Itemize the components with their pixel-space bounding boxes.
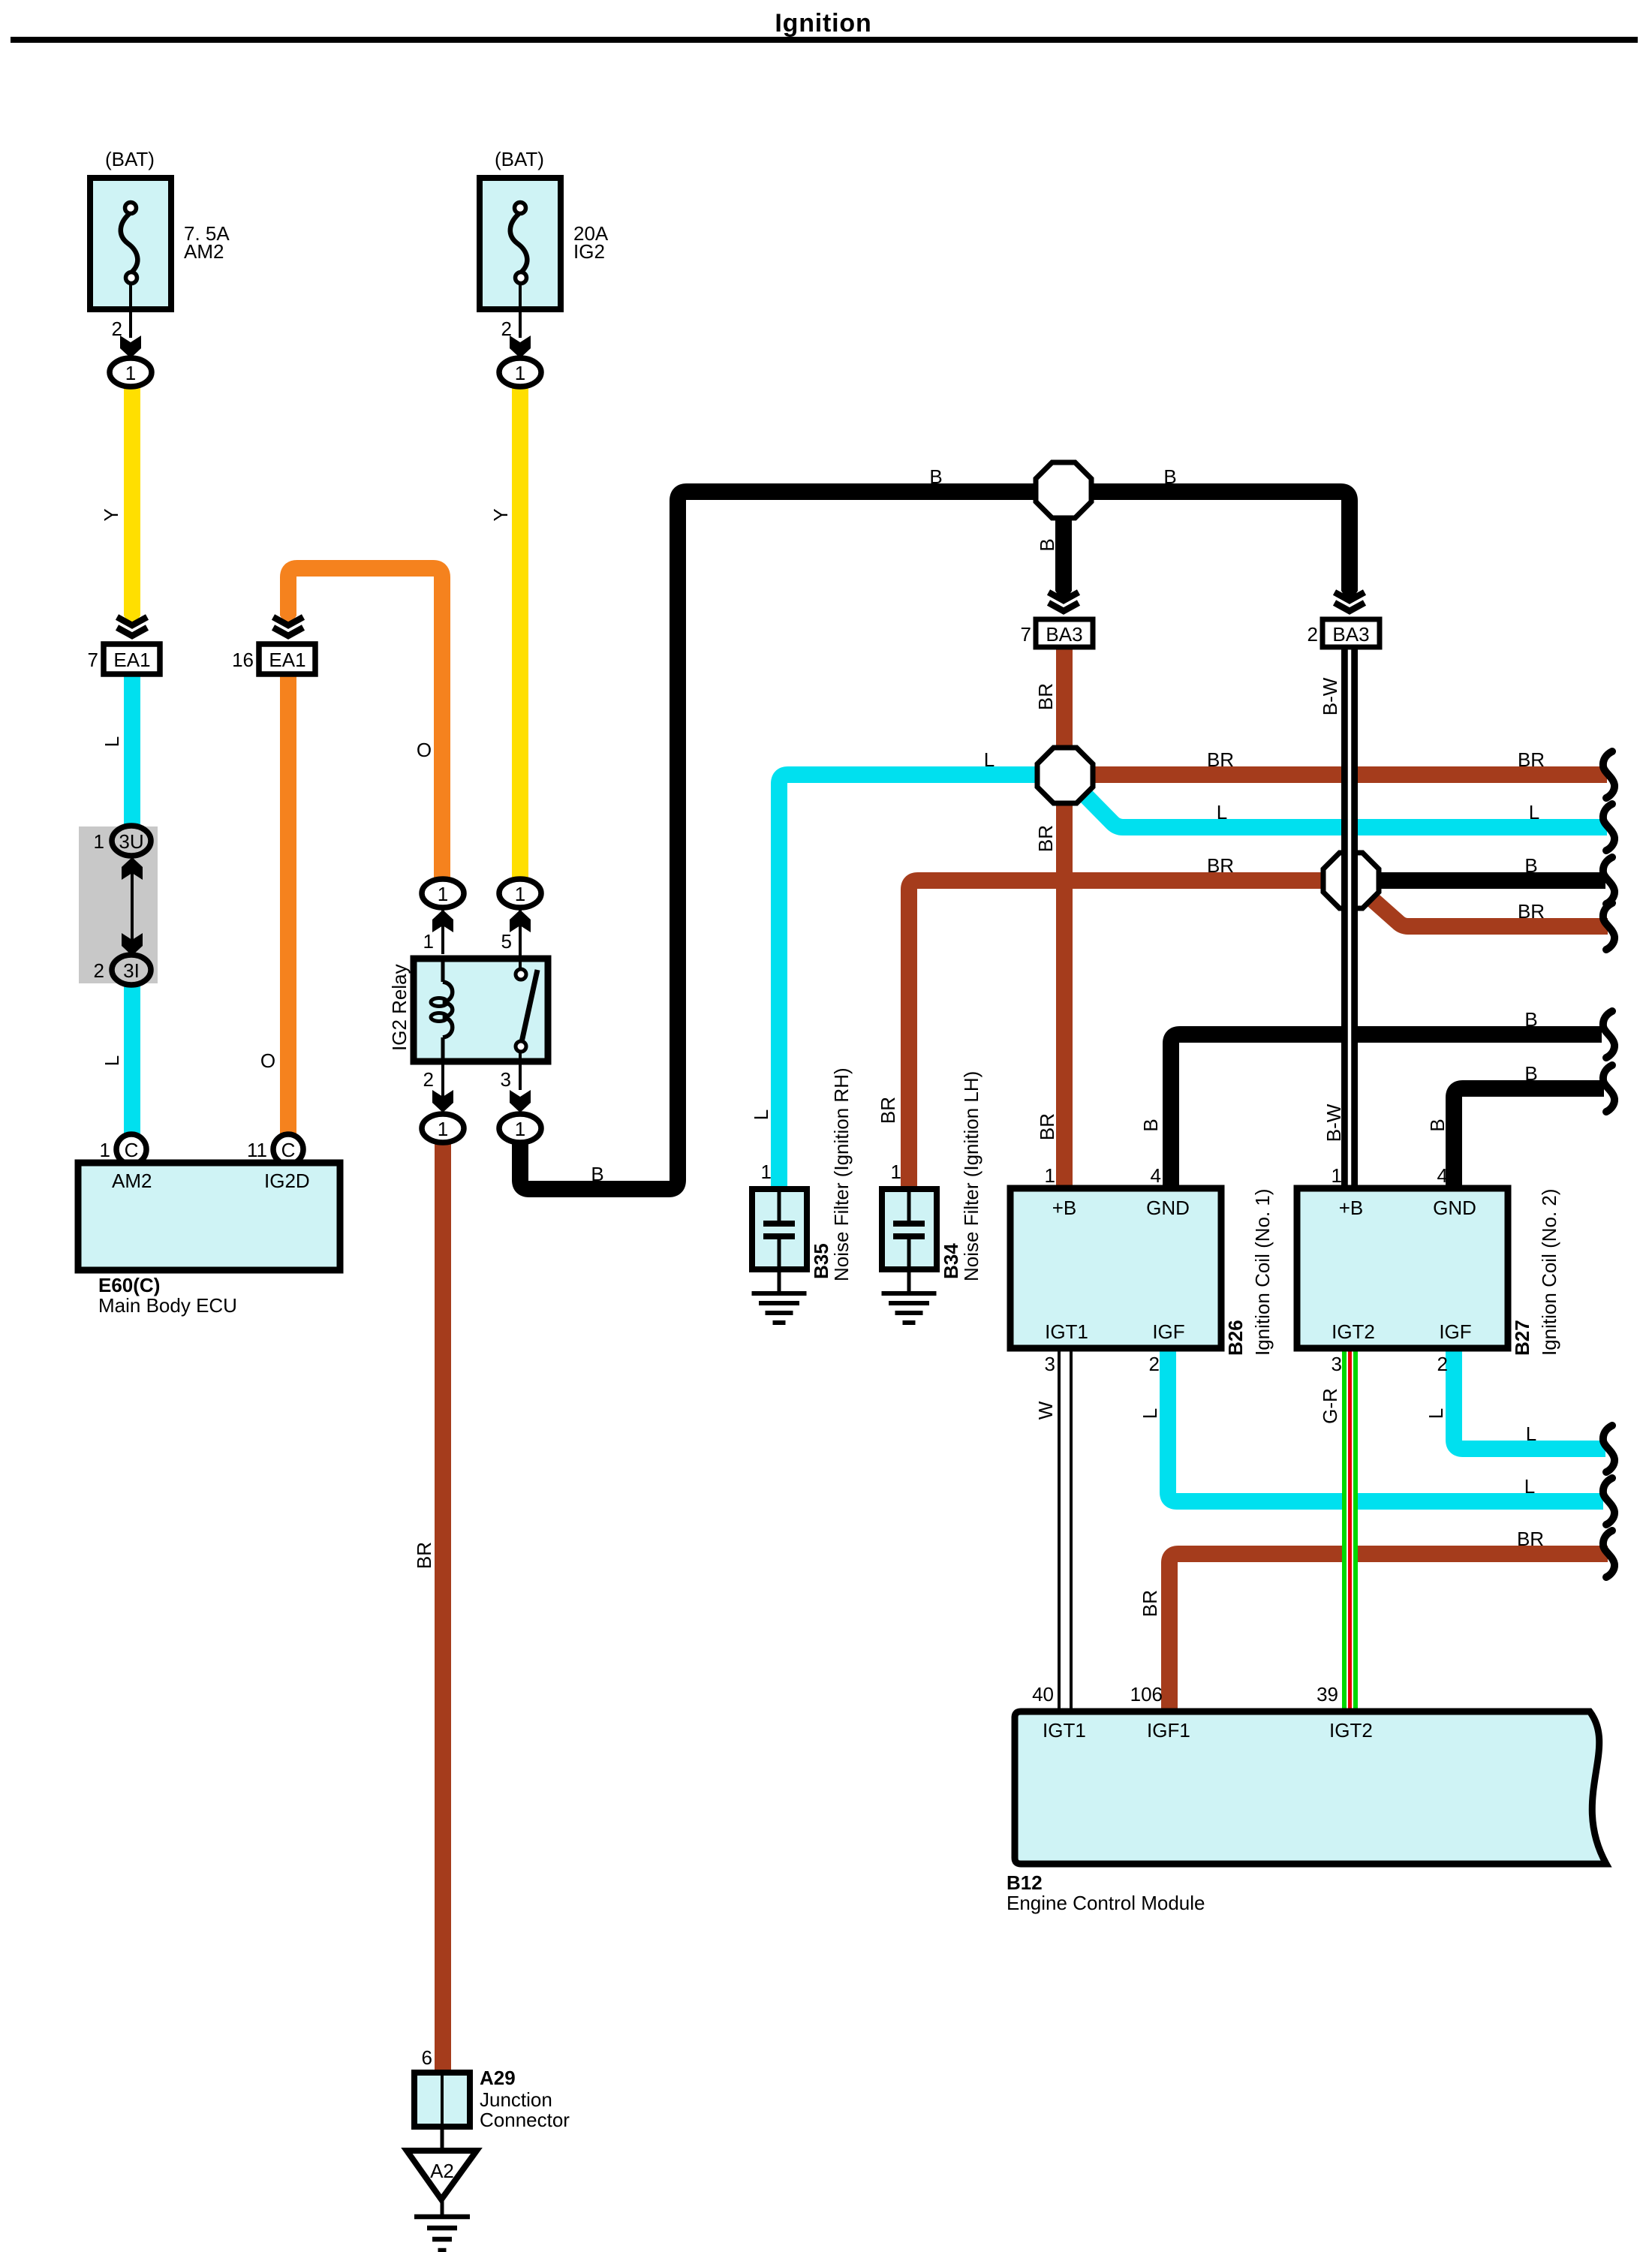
svg-text:2: 2: [1307, 623, 1318, 646]
splice point (octagon) BR/B row 1173: [1323, 853, 1379, 908]
wire L cyan: splice left then down to noise filter B35: [779, 775, 1065, 1190]
connector pin 1 below relay left: [422, 1114, 464, 1143]
ignition coil B26 (No. 1) box: [1010, 1188, 1221, 1348]
svg-text:EA1: EA1: [269, 649, 305, 671]
svg-text:BR: BR: [1518, 748, 1545, 771]
svg-text:IGF1: IGF1: [1147, 1719, 1190, 1742]
svg-text:1: 1: [438, 883, 448, 905]
torn-wire mark at right edge (B row from B26 GND): [1603, 1011, 1614, 1058]
svg-text:W: W: [1034, 1401, 1057, 1420]
svg-text:BR: BR: [1207, 748, 1234, 771]
svg-text:2: 2: [423, 1068, 434, 1091]
svg-text:11: 11: [247, 1139, 267, 1161]
svg-text:L: L: [984, 748, 995, 771]
svg-text:L: L: [1524, 1475, 1535, 1498]
connector EA1 pin 16: [259, 644, 315, 674]
svg-text:B-W: B-W: [1319, 677, 1341, 715]
wire BR brown: noise filter B34 up then right to splice: [909, 881, 1351, 1190]
svg-text:B: B: [1524, 854, 1537, 877]
svg-text:B-W: B-W: [1323, 1103, 1345, 1142]
arrow into connector below fuse AM2: [120, 336, 141, 358]
svg-text:B12: B12: [1007, 1871, 1043, 1894]
title rule: [11, 37, 1638, 43]
svg-text:B34: B34: [940, 1243, 962, 1279]
wire BR brown: splice right to torn edge: [1065, 766, 1607, 783]
svg-text:AM2: AM2: [184, 240, 224, 263]
arrow up into pin 1 oval: [432, 910, 453, 932]
wire O orange: EA1-16 down to E60 pin 11: [280, 674, 296, 1137]
wire W white: coil B26 IGT1 down to ECM pin 40 IGT1: [1058, 1348, 1073, 1715]
svg-text:IGT1: IGT1: [1043, 1719, 1086, 1742]
svg-text:L: L: [1526, 1423, 1536, 1445]
svg-text:Junction: Junction: [480, 2088, 552, 2111]
relay coil: [441, 959, 445, 982]
noise filter B34 (Ignition LH): [882, 1189, 937, 1269]
wire L cyan: coil B27 IGF down then right to torn edge (row 1930): [1454, 1348, 1605, 1449]
svg-text:2: 2: [94, 959, 104, 982]
wire B-W black-white: BA3-2 down through splice to ignition coil B27 +B: [1341, 647, 1358, 1190]
svg-text:3: 3: [1045, 1353, 1055, 1375]
relay switch: [519, 931, 522, 970]
svg-text:BA3: BA3: [1332, 623, 1369, 646]
svg-text:1: 1: [423, 930, 434, 953]
relay pin stub 5: [519, 908, 522, 954]
svg-text:B: B: [1036, 538, 1058, 551]
torn-wire mark at right edge (BR row to ECM IGF1): [1603, 1531, 1614, 1577]
svg-text:3: 3: [1332, 1353, 1342, 1375]
arrow up into pin 5 oval: [510, 910, 531, 932]
Engine Control Module B12 box with torn right edge: [1015, 1712, 1606, 1864]
lead from A29 to ground point A2: [441, 2127, 444, 2152]
svg-text:L: L: [1217, 801, 1227, 823]
svg-text:(BAT): (BAT): [105, 148, 155, 170]
junction connector block (gray): [79, 826, 158, 983]
splice point (octagon) on B line: [1036, 462, 1091, 518]
svg-text:16: 16: [232, 649, 254, 671]
wire BR brown: BA3-7 down through splice to ignition coil B26 +B: [1056, 647, 1073, 1190]
svg-text:GND: GND: [1433, 1197, 1476, 1219]
svg-text:L: L: [101, 736, 123, 747]
svg-text:L: L: [1425, 1408, 1447, 1419]
svg-text:B: B: [1524, 1062, 1537, 1085]
wire L cyan: splice diagonal down then right to torn edge: [1065, 775, 1607, 827]
svg-text:1: 1: [125, 362, 136, 384]
fuse IG2 20A (BAT): [480, 178, 561, 309]
svg-text:L: L: [1139, 1408, 1161, 1419]
wire B black: coil B26 GND up then right to torn edge: [1171, 1034, 1602, 1190]
svg-text:BR: BR: [1207, 854, 1234, 877]
wire B-W over splice: [1341, 847, 1358, 914]
svg-text:Connector: Connector: [480, 2109, 570, 2131]
svg-text:Noise Filter (Ignition LH): Noise Filter (Ignition LH): [960, 1071, 982, 1281]
torn-wire mark at right edge (L row from B27 IGF): [1603, 1426, 1614, 1472]
connector 3U pin 1: [112, 826, 151, 856]
svg-text:AM2: AM2: [112, 1170, 152, 1192]
svg-text:BA3: BA3: [1046, 623, 1082, 646]
connector BA3 pin 7: [1036, 619, 1093, 647]
svg-text:Y: Y: [100, 508, 122, 521]
svg-text:B: B: [929, 465, 942, 488]
connector pin 1 above relay: [422, 879, 464, 908]
svg-text:BR: BR: [1518, 900, 1545, 923]
svg-text:4: 4: [1151, 1164, 1161, 1187]
arrow up into 3U: [122, 857, 143, 880]
svg-text:B27: B27: [1511, 1320, 1533, 1356]
svg-text:IGT1: IGT1: [1045, 1320, 1088, 1343]
connector 3I pin 2: [112, 955, 151, 985]
svg-text:5: 5: [501, 930, 512, 953]
svg-text:7: 7: [88, 649, 98, 671]
svg-text:3: 3: [501, 1068, 511, 1091]
arrow into EA1-7: [124, 611, 140, 629]
relay pin stub 2: [441, 1064, 444, 1115]
svg-text:Ignition: Ignition: [775, 9, 871, 38]
torn-wire mark at right edge (B row from splice): [1603, 857, 1614, 904]
svg-text:+B: +B: [1339, 1197, 1364, 1219]
ground symbol: [414, 2214, 470, 2220]
wire B black: splice down to BA3-7: [1055, 492, 1072, 588]
wire B black: relay pin 3 down, right, up and across to BA3 connectors: [520, 492, 1350, 1189]
wire L cyan: coil B26 IGF down then right to torn edge (row 2000): [1168, 1348, 1603, 1501]
svg-text:O: O: [417, 739, 432, 761]
svg-text:1: 1: [94, 830, 104, 853]
svg-text:EA1: EA1: [113, 649, 150, 671]
wire BR brown: torn edge left then down to ECM pin 106 IGF1: [1169, 1554, 1608, 1715]
svg-text:39: 39: [1316, 1683, 1338, 1706]
svg-text:1: 1: [515, 362, 525, 384]
svg-text:3U: 3U: [119, 830, 143, 853]
svg-text:Y: Y: [489, 508, 512, 521]
svg-text:C: C: [281, 1139, 296, 1161]
connector pin 1 above relay right: [499, 879, 541, 908]
svg-text:1: 1: [438, 1118, 448, 1140]
svg-text:IGT2: IGT2: [1332, 1320, 1375, 1343]
svg-text:IG2: IG2: [573, 240, 605, 263]
svg-text:B: B: [1524, 1008, 1537, 1031]
svg-text:Ignition Coil (No. 2): Ignition Coil (No. 2): [1538, 1188, 1560, 1356]
svg-text:G-R: G-R: [1319, 1388, 1341, 1424]
svg-text:1: 1: [891, 1161, 901, 1183]
wire O orange: EA1-16 over to IG2 relay pin 1: [288, 568, 442, 883]
svg-text:L: L: [750, 1109, 772, 1120]
svg-text:Engine Control Module: Engine Control Module: [1007, 1892, 1205, 1914]
svg-text:Ignition Coil (No. 1): Ignition Coil (No. 1): [1251, 1188, 1274, 1356]
svg-text:BR: BR: [877, 1097, 899, 1124]
svg-text:IGT2: IGT2: [1329, 1719, 1373, 1742]
svg-text:1: 1: [1332, 1164, 1342, 1187]
torn-wire mark at right edge (L row from splice): [1603, 804, 1614, 851]
svg-text:IG2D: IG2D: [264, 1170, 310, 1192]
svg-text:B35: B35: [810, 1243, 832, 1279]
wire G-R green-red: coil B27 IGT2 down to ECM pin 39 IGT2: [1342, 1348, 1358, 1715]
svg-text:6: 6: [422, 2046, 432, 2069]
svg-text:BR: BR: [1034, 825, 1057, 852]
connector pin 1 below relay right: [499, 1114, 541, 1143]
svg-text:B: B: [1139, 1118, 1162, 1131]
svg-text:1: 1: [515, 1118, 525, 1140]
ground point A2 (triangle): [407, 2151, 477, 2199]
svg-text:O: O: [260, 1049, 275, 1072]
torn-wire mark at right edge (BR row from splice): [1603, 903, 1614, 950]
svg-text:GND: GND: [1146, 1197, 1190, 1219]
svg-text:1: 1: [515, 883, 525, 905]
svg-text:7: 7: [1021, 623, 1031, 646]
wire Y yellow: fuse AM2 pin 1 down to junction EA1-7: [124, 384, 140, 612]
svg-text:L: L: [1529, 801, 1539, 823]
svg-text:BR: BR: [1036, 1113, 1058, 1140]
wire B black: splice right to torn edge (row 1173): [1351, 872, 1605, 889]
svg-text:C: C: [125, 1139, 139, 1161]
svg-text:3I: 3I: [123, 959, 140, 982]
splice point (octagon) BR/L row 1030: [1037, 748, 1093, 803]
arrow into BA3-7: [1055, 586, 1072, 604]
svg-text:40: 40: [1032, 1683, 1054, 1706]
torn-wire mark at right edge (BR row to splice): [1603, 751, 1614, 798]
svg-text:1: 1: [1045, 1164, 1055, 1187]
svg-text:A2: A2: [430, 2160, 454, 2182]
connector C pin 11 of E60: [273, 1134, 303, 1164]
svg-text:E60(C): E60(C): [98, 1274, 160, 1296]
junction connector A29: [414, 2073, 470, 2127]
noise filter B35 (Ignition RH): [752, 1189, 807, 1269]
arrow into EA1-16: [280, 611, 296, 629]
relay pin stub 1: [441, 908, 444, 954]
connector BA3 pin 2: [1323, 619, 1380, 647]
torn-wire mark at right edge (B row from B27 GND): [1603, 1065, 1614, 1112]
wire Y yellow: fuse IG2 pin 1 down to IG2 relay pin 5: [512, 384, 528, 883]
svg-text:Noise Filter (Ignition RH): Noise Filter (Ignition RH): [830, 1067, 853, 1281]
svg-text:IG2 Relay: IG2 Relay: [388, 964, 411, 1051]
wire L cyan: junction 3I down to E60 pin 1: [124, 980, 140, 1137]
fuse AM2 7.5A (BAT): [90, 178, 171, 309]
svg-text:IGF: IGF: [1152, 1320, 1184, 1343]
svg-text:BR: BR: [1517, 1528, 1544, 1550]
Main Body ECU E60(C) box: [78, 1163, 340, 1270]
connector C pin 1 of E60: [116, 1134, 146, 1164]
arrow down to pin 3 oval: [510, 1090, 531, 1112]
svg-text:BR: BR: [413, 1542, 435, 1569]
svg-text:BR: BR: [1034, 683, 1057, 710]
torn-wire mark at right edge (L row from B26 IGF): [1603, 1478, 1614, 1525]
svg-text:IGF: IGF: [1439, 1320, 1471, 1343]
IG2 relay box: [414, 959, 548, 1061]
svg-text:2: 2: [1437, 1353, 1448, 1375]
wire L cyan: EA1-7 down to junction connector 3U: [124, 674, 140, 832]
svg-text:L: L: [101, 1055, 123, 1066]
svg-text:A29: A29: [480, 2067, 516, 2089]
lead from A2 to ground: [441, 2199, 444, 2217]
svg-text:4: 4: [1437, 1164, 1448, 1187]
svg-text:2: 2: [1149, 1353, 1160, 1375]
svg-text:+B: +B: [1052, 1197, 1077, 1219]
svg-text:(BAT): (BAT): [495, 148, 544, 170]
ignition coil B27 (No. 2) box: [1297, 1188, 1508, 1348]
wire BR brown: splice diagonal down then right to torn edge (row 1234): [1351, 881, 1608, 926]
svg-text:106: 106: [1130, 1683, 1163, 1706]
svg-text:Main Body ECU: Main Body ECU: [98, 1294, 237, 1317]
svg-text:1: 1: [100, 1139, 110, 1161]
arrow down to pin 2 oval: [432, 1090, 453, 1112]
svg-text:B26: B26: [1224, 1320, 1247, 1356]
svg-text:B: B: [1163, 465, 1176, 488]
connector EA1 pin 7: [104, 644, 160, 674]
wire B black: coil B27 GND up then right to torn edge: [1454, 1088, 1604, 1190]
svg-text:B: B: [1426, 1118, 1449, 1131]
wire BR brown: relay pin 2 down to junction connector A29 pin 6: [435, 1140, 451, 2074]
connector pin 1 below fuse AM2: [110, 358, 152, 387]
svg-text:1: 1: [761, 1161, 772, 1183]
arrow into connector below fuse IG2: [510, 336, 531, 358]
connector pin 1 below fuse IG2: [499, 358, 541, 387]
svg-text:B: B: [591, 1163, 603, 1185]
arrow into BA3-2: [1341, 586, 1358, 604]
connecting line 3U-3I: [131, 852, 134, 957]
svg-text:BR: BR: [1139, 1590, 1161, 1617]
arrow down into 3I: [122, 933, 143, 956]
